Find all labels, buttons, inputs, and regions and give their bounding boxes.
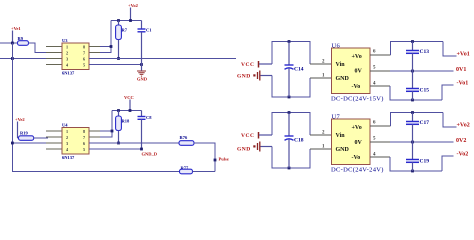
ground symbol GND ch1: [137, 65, 148, 82]
svg-text:6: 6: [83, 141, 85, 146]
capacitor C14: [285, 42, 304, 98]
wire input row ch1 y=43: [0, 42, 18, 44]
pin stubs U4 left: [46, 131, 62, 149]
wire pin6 of U4 to R76: [89, 142, 179, 144]
svg-text:3: 3: [66, 141, 68, 146]
svg-text:2: 2: [66, 51, 68, 56]
wire pins 8,7 tied and up to +Vo2 bar: [100, 21, 111, 53]
node +Vo2 power label: [128, 3, 139, 21]
svg-text:U4: U4: [62, 123, 68, 128]
wire pin6 VO long wire: [89, 58, 236, 60]
svg-text:6N137: 6N137: [62, 71, 75, 76]
node junction dot (130,110.5): [129, 109, 132, 112]
capacitor C15: [406, 71, 429, 100]
svg-text:0V1: 0V1: [456, 67, 466, 73]
svg-text:R76: R76: [180, 135, 188, 140]
resistor R19: [18, 131, 49, 141]
svg-text:0V: 0V: [355, 140, 363, 146]
wire +Vo pin6 up to output rail block2: [370, 125, 391, 127]
node VCC port block1: [241, 61, 272, 68]
node junction dot (412.5,100): [411, 99, 414, 102]
svg-text:C17: C17: [420, 120, 430, 126]
svg-text:VCC: VCC: [241, 133, 254, 139]
svg-text:0V2: 0V2: [456, 138, 466, 144]
svg-text:C15: C15: [420, 88, 430, 94]
svg-text:7: 7: [83, 51, 85, 56]
svg-text:C19: C19: [420, 159, 430, 165]
wire vertical bus x=12.5: [13, 43, 181, 172]
svg-text:-Vo: -Vo: [352, 155, 361, 161]
svg-text:0V: 0V: [355, 68, 363, 74]
svg-text:5: 5: [83, 63, 85, 68]
pin stubs U4 right: [89, 131, 104, 149]
node GND port block1: [237, 71, 272, 81]
svg-text:C1: C1: [146, 28, 152, 33]
node junction dot (141.5,64.5): [140, 63, 143, 66]
wire pin3 row ch1 from left edge: [0, 58, 62, 60]
svg-text:-Vo: -Vo: [352, 84, 361, 90]
capacitor C1: [138, 21, 153, 65]
node VCC port block2: [241, 132, 272, 139]
svg-text:U3: U3: [62, 38, 68, 43]
node junction dot (118.5,20.5): [117, 19, 120, 22]
svg-text:-Vo2: -Vo2: [457, 152, 469, 158]
wire -Vo2 output stub: [442, 156, 454, 171]
node junction dot (118.5,58.5): [117, 57, 120, 60]
svg-text:GND: GND: [336, 76, 350, 82]
node junction dot (289,41.5): [288, 40, 291, 43]
node junction dot (412.5,71): [411, 70, 414, 73]
svg-text:GND: GND: [237, 147, 251, 153]
svg-text:GND: GND: [237, 74, 251, 80]
svg-text:7: 7: [83, 135, 85, 140]
svg-text:GND: GND: [336, 147, 350, 153]
capacitor C18: [285, 113, 304, 169]
svg-text:1: 1: [66, 45, 68, 50]
svg-text:GND: GND: [137, 77, 148, 82]
node junction dot (12.5,58.5): [11, 57, 14, 60]
wire R9 to pin2 of U3: [29, 43, 49, 53]
svg-text:Vin: Vin: [336, 62, 346, 68]
wire pin3 row ch2: [13, 142, 63, 144]
wire 0V rail pin5 block2: [370, 141, 390, 143]
svg-text:DC-DC(24V-24V): DC-DC(24V-24V): [331, 167, 384, 174]
svg-text:+Vo1: +Vo1: [457, 52, 470, 58]
svg-text:R18: R18: [122, 119, 130, 124]
node junction dot (112,131): [111, 130, 114, 133]
svg-text:1: 1: [66, 129, 68, 134]
svg-text:Vin: Vin: [336, 133, 346, 139]
op-amp U7 DC-DC module body: [331, 113, 384, 173]
svg-text:8: 8: [83, 129, 85, 134]
svg-text:6: 6: [83, 57, 85, 62]
svg-text:6N137: 6N137: [62, 155, 75, 160]
op-amp U3 optocoupler 6N137 body: [62, 38, 89, 76]
svg-text:8: 8: [83, 45, 85, 50]
pin number labels U4: [66, 129, 85, 152]
svg-text:+Ve2: +Ve2: [15, 117, 25, 122]
node junction dot (289,97): [288, 96, 291, 99]
wire pin5 GND row: [89, 64, 142, 66]
resistor R9: [18, 36, 29, 45]
svg-text:C13: C13: [420, 49, 430, 55]
node junction dot (412.5,171): [411, 170, 414, 173]
svg-text:+Vo2: +Vo2: [128, 3, 139, 8]
svg-text:2: 2: [66, 135, 68, 140]
node junction dot (412.5,112.5): [411, 111, 414, 114]
svg-text:VCC: VCC: [124, 95, 134, 100]
svg-text:DC-DC(24V-15V): DC-DC(24V-15V): [331, 96, 384, 103]
svg-text:C8: C8: [146, 115, 152, 120]
op-amp U6 DC-DC module body: [331, 42, 384, 102]
node junction dot (412.5,41.5): [411, 40, 414, 43]
resistor R18 pull-up: [116, 111, 130, 144]
node junction dot (12.5,143): [11, 142, 14, 145]
node junction dot (289,168): [288, 167, 291, 170]
svg-text:R19: R19: [20, 131, 28, 136]
capacitor C13: [406, 42, 429, 72]
node junction dot (289,112.5): [288, 111, 291, 114]
pin stubs U3 right: [89, 47, 104, 65]
svg-text:3: 3: [66, 57, 68, 62]
svg-text:C14: C14: [294, 67, 304, 73]
wire pins 8,7 of U4 tied and up to VCC bar: [100, 111, 112, 138]
svg-text:GND_D: GND_D: [142, 152, 158, 157]
wire input rails block2: [272, 113, 310, 169]
svg-text:+Vo2: +Vo2: [457, 123, 470, 129]
capacitor C19: [406, 142, 429, 171]
node VCC power label ch2: [124, 95, 134, 111]
wire +Vo2 output stub: [443, 113, 457, 128]
capacitor C17: [406, 113, 429, 143]
wire +Vo2 supply bar y=20.5: [111, 20, 142, 22]
pin stubs U7 left: [310, 135, 332, 149]
svg-text:-Vo1: -Vo1: [457, 81, 469, 87]
node junction dot (12.5,43): [11, 42, 14, 45]
node junction dot (141.5,149): [140, 148, 143, 151]
node junction dot (118.5,143): [117, 142, 120, 145]
wire R76 to Pulse node: [194, 143, 215, 172]
svg-text:C18: C18: [294, 138, 304, 144]
wire 0V rail pin5: [370, 70, 390, 72]
node junction dot Pulse (215,160): [214, 159, 217, 162]
svg-text:R7: R7: [122, 28, 128, 33]
resistor R76: [179, 135, 194, 145]
wire -Vo pin4 down to bottom rail: [370, 85, 390, 87]
wire bottom return R77 to Pulse corner: [193, 171, 216, 173]
node +Ve2 power label channel 2: [15, 117, 25, 138]
op-amp U4 optocoupler 6N137 body: [62, 123, 89, 161]
node +Ve1 power label channel 1: [11, 26, 21, 43]
wire pin5 GND_D row: [89, 148, 142, 150]
svg-text:5: 5: [83, 147, 85, 152]
wire -Vo pin4 down to bottom rail block2: [370, 156, 390, 158]
capacitor C8: [138, 111, 153, 150]
pin stubs U6 left: [310, 64, 332, 78]
resistor R7 pull-up: [116, 21, 128, 59]
node junction dot (118.5,110.5): [117, 109, 120, 112]
wire -Vo1 output stub: [442, 85, 454, 100]
node junction dot (412.5,142): [411, 141, 414, 144]
node GND port block2: [237, 142, 272, 153]
resistor R77: [180, 166, 193, 174]
node junction dot (130.5,20.5): [129, 19, 132, 22]
svg-text:Pulse: Pulse: [219, 157, 229, 162]
wire input rails block1: [272, 42, 310, 98]
pin number labels U3: [66, 45, 85, 68]
svg-text:+Vo: +Vo: [352, 54, 362, 60]
wire +Vo pin6 up to output rail: [370, 54, 391, 56]
node junction dot (111,46.5): [110, 45, 113, 48]
svg-text:+Vo: +Vo: [352, 125, 362, 131]
svg-text:+Ve1: +Ve1: [11, 26, 21, 31]
wire VCC supply bar y=110.5: [112, 110, 142, 112]
wire +Vo1 output stub: [443, 42, 457, 57]
pin stubs U3 left: [46, 47, 62, 65]
svg-text:VCC: VCC: [241, 62, 254, 68]
